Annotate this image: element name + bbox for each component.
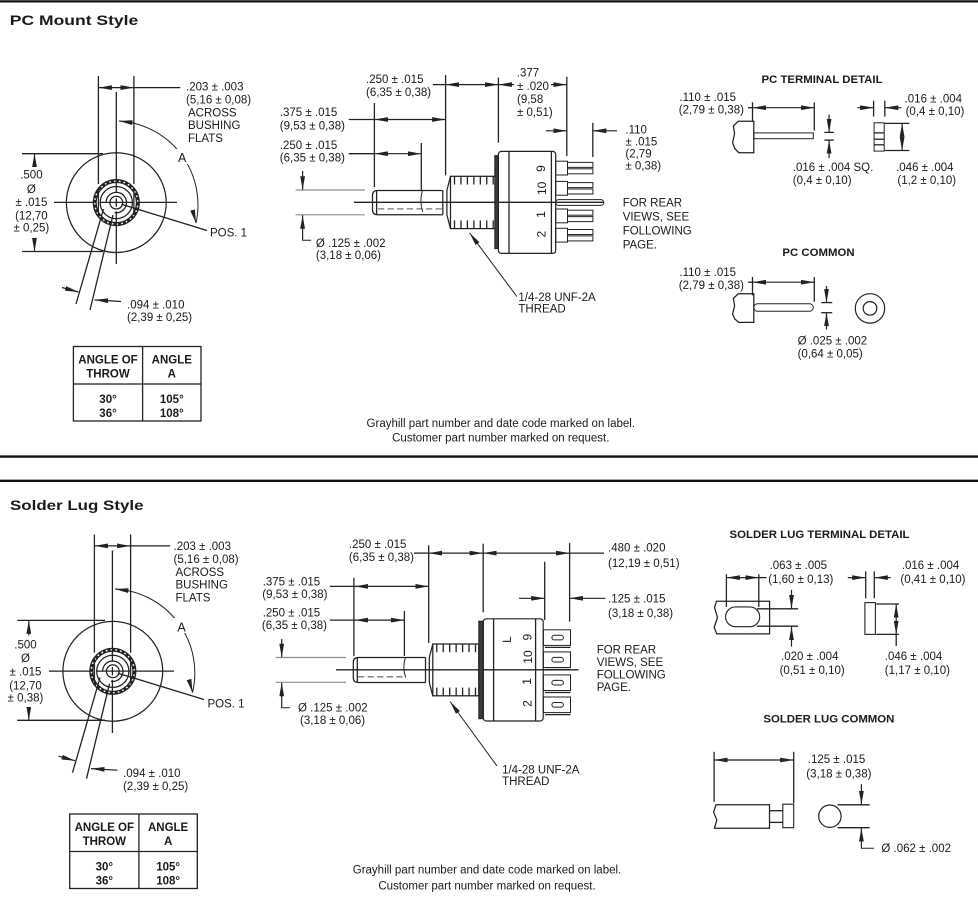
dimension .250 flat: dimension line (349, 153, 375, 155)
svg-text:1/4-28 UNF-2A: 1/4-28 UNF-2A (502, 764, 580, 776)
PC common: extension line right (813, 277, 815, 302)
Solder side view: shaft diameter extension bottom (gray) (276, 681, 346, 683)
PC common: pin thickness arrows (826, 286, 828, 330)
svg-text:.377: .377 (517, 67, 539, 79)
Solder side view: bushing thread ticks top (437, 644, 476, 652)
dimension .375 shaft: text (280, 107, 345, 132)
svg-text:(9,53 ± 0,38): (9,53 ± 0,38) (280, 120, 345, 132)
Solder side view: threaded bushing outline (433, 644, 479, 696)
dimension .250 bushing (solder): leader (414, 552, 429, 554)
svg-text:105°: 105° (160, 394, 184, 406)
POS. 1 leader line (solder) (118, 673, 204, 699)
dimension .250 flat: text (280, 140, 345, 164)
dimension .377: dimension line left part (498, 84, 514, 86)
svg-text:A: A (177, 620, 186, 634)
angle table: throw values (96, 862, 114, 888)
dimension .094 arrow (95, 300, 122, 302)
Solder side view: switch body (483, 619, 543, 721)
dimension .377: dimension line right part (551, 84, 567, 86)
PC pin end view: dim .046 text (896, 162, 956, 187)
svg-text:POS. 1: POS. 1 (210, 228, 247, 240)
lug detail: dim .020 arrows (791, 590, 793, 647)
svg-text:SOLDER LUG COMMON: SOLDER LUG COMMON (763, 714, 894, 726)
marking note bottom (353, 865, 622, 893)
svg-text:± .015: ± .015 (10, 667, 42, 679)
dimension .094 text (solder) (123, 768, 188, 793)
PC side view: extension line pin end (592, 123, 594, 157)
dimension .377: text (517, 67, 553, 119)
svg-text:(2,79 ± 0,38): (2,79 ± 0,38) (679, 280, 744, 292)
PC pin end view: dim .016 arrows (857, 107, 901, 109)
PC side view: bushing thread ticks bottom (455, 220, 494, 228)
svg-text:Ø .062 ± .002: Ø .062 ± .002 (881, 843, 951, 855)
Solder side view: shaft diameter extension top (gray) (276, 657, 346, 659)
svg-text:2: 2 (534, 231, 548, 238)
PC terminal row 2 (556, 228, 593, 242)
dimension .480 (solder): text (608, 542, 680, 569)
svg-text:THROW: THROW (86, 369, 130, 381)
section divider rule 1 (0, 455, 978, 457)
dimension dia .125: up arrow (302, 215, 304, 239)
PC front view: shaft circle (110, 196, 123, 209)
svg-text:BUSHING: BUSHING (188, 120, 240, 132)
angle table: frame (70, 814, 198, 889)
section divider rule 2 (0, 480, 978, 482)
svg-text:VIEWS, SEE: VIEWS, SEE (623, 211, 690, 223)
PC side view: threaded bushing outline (451, 176, 497, 228)
PC terminal detail: extension line right (813, 102, 815, 130)
svg-text:(6,35 ± 0,38): (6,35 ± 0,38) (349, 552, 414, 564)
svg-text:.250 ± .015: .250 ± .015 (280, 140, 337, 152)
dimension .250 flat (solder): dimension line (330, 619, 355, 621)
svg-text:.110 ± .015: .110 ± .015 (679, 267, 736, 279)
svg-text:.250 ± .015: .250 ± .015 (349, 539, 406, 551)
lug edge view: dim .016 arrows (848, 577, 891, 579)
PC side view: extension line end of flat (420, 143, 422, 190)
dimension .203 across flats (solder): leader (131, 545, 171, 547)
svg-text:.375 ± .015: .375 ± .015 (280, 107, 337, 119)
lug edge view: dim .046 text (885, 651, 950, 677)
svg-text:30°: 30° (96, 862, 114, 874)
angle table: header ANGLE OF THROW (75, 822, 134, 848)
dimension .500 dia (solder): text (8, 639, 44, 704)
svg-text:.016 ± .004: .016 ± .004 (905, 93, 963, 105)
Solder side view: extension line end of flat (403, 611, 405, 656)
svg-text:Ø .025 ± .002: Ø .025 ± .002 (798, 336, 868, 348)
PC common: dim .110 text (679, 267, 744, 292)
solder common: tangent extension lines (838, 805, 870, 828)
svg-text:.125 ± .015: .125 ± .015 (808, 754, 865, 766)
dimension .500 dia (solder): down arrow (28, 707, 30, 720)
PC common terminal pin (556, 200, 604, 206)
angle table: header ANGLE A (152, 355, 193, 381)
svg-text:(1,17 ± 0,10): (1,17 ± 0,10) (885, 665, 950, 677)
dimension .250 bushing: text (366, 74, 431, 99)
svg-text:(0,51 ± 0,10): (0,51 ± 0,10) (780, 665, 845, 677)
svg-text:.094 ± .010: .094 ± .010 (123, 768, 180, 780)
PC common: terminal head (733, 294, 754, 323)
svg-text:36°: 36° (96, 876, 114, 888)
PC side view: switch body (498, 151, 555, 253)
PC pin end view: pin bar (874, 123, 884, 151)
lug detail: dim .063 line (726, 577, 758, 579)
PC terminal detail: terminal head (733, 121, 754, 153)
Solder side view: body rear internal line (535, 619, 537, 721)
dimension .203 across flats: text (186, 82, 251, 145)
svg-text:FOR REAR: FOR REAR (597, 644, 656, 656)
svg-text:10: 10 (521, 650, 535, 664)
dimension .500 dia: top tangent line (22, 153, 103, 155)
PC terminal detail: dim .016 SQ text (793, 162, 873, 187)
lug detail: extension lines (726, 574, 758, 607)
top border rule (0, 0, 978, 2)
Solder side view: body front internal line (493, 619, 495, 721)
PC terminal detail: dim .110 line (748, 107, 753, 109)
svg-text:.110: .110 (625, 124, 647, 136)
dimension .250 bushing (solder): text (349, 539, 414, 564)
Solder side view: extension line shaft end (428, 545, 430, 643)
solder common: extension lines (714, 752, 794, 804)
svg-text:1: 1 (520, 678, 534, 685)
svg-text:± 0,38): ± 0,38) (8, 692, 44, 704)
rotor slot line 2 (90, 215, 113, 310)
PC pin end view: pin bar internal lines (874, 133, 884, 145)
marking note top (367, 418, 636, 445)
svg-text:PC Mount Style: PC Mount Style (10, 12, 139, 28)
dimension .500 dia (solder): up arrow (28, 620, 30, 635)
svg-text:FOLLOWING: FOLLOWING (623, 225, 692, 237)
angle table: column divider (138, 814, 140, 889)
PC common: dim dia .025 text (798, 336, 868, 361)
Solder side view: extension line shaft start (353, 578, 355, 656)
svg-text:(2,79 ± 0,38): (2,79 ± 0,38) (679, 105, 744, 117)
thread callout leader (PC) (470, 233, 517, 297)
slot width arrow left (solder) (59, 756, 76, 761)
PC side view: extension line body rear (566, 77, 568, 156)
dimension dia .125: elbow leader (303, 239, 311, 242)
lug edge view: extension lines (866, 571, 875, 598)
svg-text:A: A (178, 151, 187, 165)
svg-text:L: L (500, 636, 514, 643)
svg-text:.203 ± .003: .203 ± .003 (174, 541, 231, 553)
dimension .250 bushing (solder): dimension line (429, 552, 484, 554)
svg-text:(12,70: (12,70 (9, 680, 42, 692)
solder common: dia arrows (860, 784, 862, 847)
svg-text:ANGLE: ANGLE (152, 355, 193, 367)
svg-text:.094 ± .010: .094 ± .010 (127, 299, 184, 311)
svg-text:.250 ± .015: .250 ± .015 (366, 74, 423, 86)
PC front view: right bushing flat / extension line (133, 76, 135, 215)
dimension .203 across flats (solder): text (174, 541, 239, 604)
dimension .480 (solder): leader (570, 552, 604, 554)
svg-text:(0,4 ± 0,10): (0,4 ± 0,10) (793, 175, 852, 187)
lug edge view: bar (865, 603, 876, 635)
svg-text:(12,19 ± 0,51): (12,19 ± 0,51) (608, 558, 680, 570)
PC common: round pin (754, 304, 814, 312)
svg-text:Solder Lug Style: Solder Lug Style (10, 497, 144, 513)
PC terminal detail: square pin (754, 133, 814, 139)
Solder side view: neck (426, 658, 430, 683)
svg-text:105°: 105° (156, 862, 180, 874)
dimension .500 dia (solder): bottom tangent line (17, 719, 105, 721)
PC side view: shaft diameter extension bottom (gray) (296, 214, 365, 216)
PC terminal detail: pin thickness arrows (828, 115, 830, 159)
angle A arc with arrows (119, 121, 198, 223)
solder common: end plate (783, 804, 794, 828)
angle table: header ANGLE OF THROW (78, 355, 137, 381)
PC front view: knurled bushing ring inner (96, 182, 136, 222)
lug detail: dim .063 text (768, 560, 833, 586)
solder lug terminal row 1 (543, 675, 570, 693)
lug edge view: dim .016 text (900, 560, 965, 586)
PC common: extension line left (752, 277, 754, 295)
svg-text:(5,16 ± 0,08): (5,16 ± 0,08) (174, 554, 239, 566)
PC side view: shaft outline (373, 191, 443, 215)
svg-text:Customer part number marked on: Customer part number marked on request. (392, 432, 609, 444)
dimension .203 across flats (solder): dimension line (94, 545, 130, 547)
svg-text:Customer part number marked on: Customer part number marked on request. (378, 880, 595, 892)
svg-text:30°: 30° (99, 394, 117, 406)
svg-text:(3,18 ± 0,06): (3,18 ± 0,06) (300, 715, 365, 727)
dimension .125 lug (solder): text (608, 594, 673, 620)
solder common: elbow leader (861, 847, 874, 850)
dimension .375 shaft (solder): text (262, 576, 327, 600)
PC pin end view: dim .016 text (905, 93, 965, 118)
PC terminal detail: dim .110 text (679, 92, 744, 117)
rotor slot line 2 (solder) (87, 684, 110, 779)
svg-text:FLATS: FLATS (176, 592, 211, 604)
svg-text:.480 ± .020: .480 ± .020 (608, 542, 665, 554)
angle table: header divider (70, 851, 198, 853)
PC side view: bushing thread ticks top (455, 176, 494, 184)
solder common: dim .125 text (806, 754, 871, 780)
Solder side view: end of flat tick (404, 658, 406, 678)
svg-text:THREAD: THREAD (502, 776, 549, 788)
PC side view: neck (443, 191, 447, 215)
svg-text:(5,16 ± 0,08): (5,16 ± 0,08) (186, 95, 251, 107)
thread callout leader (solder) (450, 702, 497, 767)
svg-text:THREAD: THREAD (518, 304, 565, 316)
Solder front view: knurled bushing ring outer (90, 648, 136, 694)
Solder side view: shaft end face line (356, 658, 358, 682)
svg-text:1: 1 (534, 211, 548, 218)
dimension .375 shaft (solder): dimension line (330, 585, 355, 587)
svg-text:ACROSS: ACROSS (188, 107, 237, 119)
svg-text:PAGE.: PAGE. (623, 239, 657, 251)
PC terminal row 10 (556, 181, 593, 195)
Solder front view: bushing ring knurl texture (91, 650, 134, 693)
Solder front view: horizontal centerline (49, 670, 174, 672)
Solder side view: extension line body rear (544, 562, 546, 620)
note FOR REAR VIEWS (solder) (597, 644, 666, 694)
svg-text:PC COMMON: PC COMMON (782, 247, 854, 259)
lug detail: thickness extension lines (757, 609, 798, 626)
angle table: angle A values (156, 862, 180, 888)
PC front view: left bushing flat / extension line (97, 76, 99, 215)
PC side view: body rear internal line (550, 151, 552, 253)
svg-text:(0,4 ± 0,10): (0,4 ± 0,10) (906, 106, 965, 118)
dimension .110 pins: right arrow (593, 130, 617, 132)
svg-text:2: 2 (521, 700, 535, 707)
svg-text:9: 9 (534, 165, 548, 172)
dimension .500 dia: up arrow (34, 154, 36, 167)
dimension .125 lug (solder): right arrow (570, 597, 606, 599)
PC side view: extension line body front (497, 78, 499, 143)
svg-text:A: A (164, 836, 172, 848)
svg-text:A: A (168, 369, 176, 381)
svg-text:FLATS: FLATS (188, 133, 223, 145)
lug detail: slot hole (726, 607, 760, 627)
angle table: frame (73, 347, 201, 422)
PC front view: rotor circle with slot gap (106, 192, 126, 212)
angle A label (175, 149, 190, 164)
svg-text:± .020: ± .020 (517, 81, 549, 93)
svg-text:Grayhill part number and date: Grayhill part number and date code marke… (353, 865, 622, 877)
lug detail: lug outline (714, 601, 769, 634)
svg-text:POS. 1: POS. 1 (208, 698, 245, 710)
svg-text:(9,58: (9,58 (517, 94, 543, 106)
svg-text:.125 ± .015: .125 ± .015 (608, 594, 665, 606)
svg-text:(3,18 ± 0,38): (3,18 ± 0,38) (608, 608, 673, 620)
solder common: wire end view circle (819, 805, 841, 827)
svg-text:(3,18 ± 0,38): (3,18 ± 0,38) (806, 768, 871, 780)
PC front view: horizontal centerline (54, 201, 177, 203)
PC terminal detail: extension line left (752, 102, 754, 122)
svg-text:FOR REAR: FOR REAR (623, 197, 682, 209)
PC terminal row 9 (556, 161, 593, 175)
solder lug terminal row 10 (543, 652, 570, 670)
svg-text:.020 ± .004: .020 ± .004 (781, 651, 839, 663)
svg-text:.250 ± .015: .250 ± .015 (263, 607, 320, 619)
svg-text:VIEWS, SEE: VIEWS, SEE (597, 657, 664, 669)
svg-text:ACROSS: ACROSS (176, 567, 225, 579)
svg-text:(6,35 ± 0,38): (6,35 ± 0,38) (366, 87, 431, 99)
PC pin end view: extension lines (874, 101, 885, 117)
PC side view: end of flat tick (421, 191, 423, 212)
svg-text:± .015: ± .015 (625, 136, 657, 148)
dimension .250 bushing: dimension line (446, 84, 499, 86)
Solder front view: vertical centerline (111, 551, 113, 734)
PC side view: body front internal line (508, 151, 510, 253)
PC side view: shaft diameter extension top (gray) (296, 189, 365, 191)
dimension .203 across flats: leader to text (134, 87, 180, 89)
svg-text:ANGLE OF: ANGLE OF (78, 355, 137, 367)
angle table: header ANGLE A (148, 822, 189, 848)
Solder front view: knurled bushing ring inner (93, 651, 133, 691)
svg-text:(9,53 ± 0,38): (9,53 ± 0,38) (262, 589, 327, 601)
Solder front view: bushing inner circle (97, 655, 129, 687)
thread callout text (solder) (502, 764, 580, 788)
dimension dia .125 (solder): elbow leader (282, 706, 290, 709)
dimension .125 lug (solder): left arrow (519, 597, 545, 599)
solder lug terminal row 9 (543, 630, 570, 648)
PC pin end view: dim .046 line (901, 123, 903, 150)
svg-text:36°: 36° (99, 408, 117, 420)
svg-text:108°: 108° (160, 408, 184, 420)
svg-text:.046 ± .004: .046 ± .004 (896, 162, 954, 174)
svg-text:.063 ± .005: .063 ± .005 (770, 560, 827, 572)
svg-text:(6,35 ± 0,38): (6,35 ± 0,38) (280, 152, 345, 164)
dimension .203 across flats: dimension line (98, 87, 133, 89)
svg-text:.375 ± .015: .375 ± .015 (263, 576, 320, 588)
PC side view: extension line shaft start (373, 103, 375, 187)
PC side view: horizontal centerline (354, 201, 604, 203)
dimension .480 (solder): dimension line (483, 552, 569, 554)
svg-text:(1,60 ± 0,13): (1,60 ± 0,13) (768, 574, 833, 586)
angle table: throw values (99, 394, 117, 420)
dimension dia .125 (solder): up arrow (281, 683, 283, 707)
svg-text:Ø .125 ± .002: Ø .125 ± .002 (298, 702, 368, 714)
Solder side view: front plate (479, 621, 484, 719)
svg-text:SOLDER LUG TERMINAL DETAIL: SOLDER LUG TERMINAL DETAIL (730, 529, 910, 541)
dimension dia .125 (solder): down arrow (281, 639, 283, 657)
angle A arc with arrows (solder) (115, 589, 195, 693)
solder common: dim .125 line (714, 759, 794, 761)
dimension .500 dia (solder): top tangent line (17, 619, 105, 621)
svg-text:PAGE.: PAGE. (597, 682, 631, 694)
dimension dia .125: text (316, 238, 386, 262)
svg-text:1/4-28 UNF-2A: 1/4-28 UNF-2A (518, 292, 596, 304)
Solder side view: cone to bushing (429, 644, 433, 696)
dimension .110 pins: text (625, 124, 661, 172)
Solder front view: left bushing flat / extension line (93, 535, 95, 684)
svg-text:.016 ± .004 SQ.: .016 ± .004 SQ. (793, 162, 873, 174)
svg-text:Grayhill part number and date: Grayhill part number and date code marke… (367, 418, 636, 430)
Solder side view: shaft outline (353, 658, 425, 683)
dimension .110 pins: left arrow (546, 130, 567, 132)
PC terminal row 1 (556, 209, 593, 223)
Solder side view: shaft flat hidden line (358, 676, 404, 678)
Solder side view: horizontal centerline (336, 669, 579, 671)
svg-text:± .015: ± .015 (15, 197, 47, 209)
svg-text:(0,64 ± 0,05): (0,64 ± 0,05) (798, 348, 863, 360)
PC side view: shaft flat hidden line (378, 208, 442, 210)
svg-text:Ø: Ø (27, 184, 36, 196)
PC common: dim .110 line (748, 281, 753, 283)
dimension dia .125 (solder): text (298, 702, 368, 727)
Solder side view: bushing thread ticks bottom (437, 688, 476, 696)
svg-text:.110 ± .015: .110 ± .015 (679, 92, 736, 104)
dimension .500 dia: bottom tangent line (22, 251, 103, 253)
Solder side view: extension line lug end (569, 543, 571, 622)
dimension .094 text (127, 299, 192, 324)
svg-text:BUSHING: BUSHING (176, 580, 228, 592)
svg-text:10: 10 (535, 181, 549, 195)
svg-text:ANGLE OF: ANGLE OF (75, 822, 134, 834)
angle table: column divider (142, 347, 144, 422)
dimension .250 flat (solder): text (262, 607, 327, 631)
slot width arrow left (62, 288, 79, 293)
PC common: pin end view donut (855, 294, 884, 323)
PC side view: shaft end face line (376, 191, 378, 214)
angle table: header divider (73, 383, 201, 385)
lug detail: dim .020 text (780, 651, 845, 677)
solder lug terminal row 2 (543, 697, 570, 715)
lug edge view: dim .046 line (895, 604, 897, 634)
svg-text:THROW: THROW (83, 836, 127, 848)
dimension .375 shaft: dimension line (349, 119, 375, 121)
Solder side view: extension line body front (482, 544, 484, 613)
dimension dia .125: down arrow (302, 171, 304, 190)
svg-text:± 0,25): ± 0,25) (14, 223, 50, 235)
svg-text:(2,79: (2,79 (625, 148, 651, 160)
svg-text:± 0,51): ± 0,51) (517, 107, 553, 119)
PC front view: knurled bushing ring outer (93, 180, 139, 226)
rotor slot line 1 (76, 209, 104, 304)
svg-text:ANGLE: ANGLE (148, 822, 189, 834)
PC side view: extension line shaft end (445, 75, 447, 175)
dimension .500 dia: down arrow (34, 238, 36, 252)
